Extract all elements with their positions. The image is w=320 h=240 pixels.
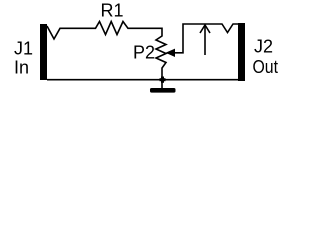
svg-text:P2: P2: [133, 42, 155, 62]
svg-text:Out: Out: [253, 57, 279, 77]
svg-text:J2: J2: [254, 36, 273, 56]
svg-text:In: In: [14, 57, 29, 77]
svg-text:J1: J1: [14, 38, 33, 58]
svg-text:R1: R1: [101, 0, 124, 20]
